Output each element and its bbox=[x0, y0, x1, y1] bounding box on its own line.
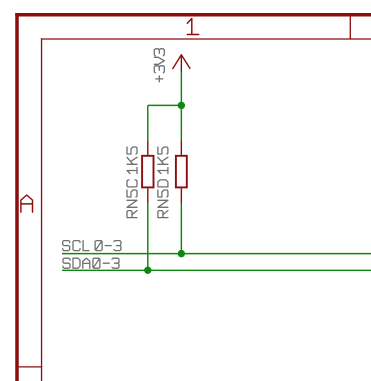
net label SDA0-3 bbox=[63, 258, 119, 268]
sheet frame outer left border bbox=[15, 13, 19, 381]
frame row divider tick bbox=[19, 366, 43, 368]
wire RN5C pin 2 down to SDA0-3 net bbox=[147, 204, 149, 271]
frame column divider tick bbox=[349, 17, 351, 40]
junction RN5D on SCL0-3 bbox=[178, 250, 185, 257]
wire +3V3 vertical to resistor RN5D pin bbox=[180, 72, 182, 141]
net label SCL0-3 bbox=[63, 241, 121, 251]
junction at +3V3 branch bbox=[178, 102, 185, 109]
resistor RN5C body bbox=[142, 156, 153, 188]
junction RN5C on SDA0-3 bbox=[144, 267, 151, 274]
wire net SCL0-3 horizontal bbox=[62, 253, 371, 255]
resistor RN5C name label bbox=[127, 180, 137, 218]
wire RN5D pin 2 down to SCL0-3 net bbox=[180, 204, 182, 254]
frame column label 1 bbox=[187, 19, 198, 35]
sheet frame outer top border bbox=[15, 13, 371, 17]
resistor RN5D pin 2 (bottom) bbox=[180, 188, 182, 203]
sheet frame inner vertical line bbox=[41, 38, 43, 381]
frame row label A bbox=[21, 195, 33, 212]
wire net SDA0-3 horizontal bbox=[62, 269, 371, 271]
power symbol +3V3 arrow bbox=[173, 55, 190, 72]
resistor RN5D value 1K5 bbox=[158, 147, 168, 174]
wire vertical down to resistor RN5C pin bbox=[147, 105, 149, 140]
resistor RN5D name label bbox=[158, 180, 168, 218]
power net label +3V3 bbox=[154, 49, 164, 82]
resistor RN5D pin 1 (top) bbox=[180, 140, 182, 155]
resistor RN5C value 1K5 bbox=[127, 147, 137, 174]
sheet frame inner horizontal line bbox=[41, 38, 371, 40]
wire horizontal branch to RN5C bbox=[148, 104, 182, 106]
resistor RN5C pin 2 (bottom) bbox=[147, 188, 149, 203]
resistor RN5D body bbox=[176, 156, 187, 188]
resistor RN5C pin 1 (top) bbox=[147, 140, 149, 155]
